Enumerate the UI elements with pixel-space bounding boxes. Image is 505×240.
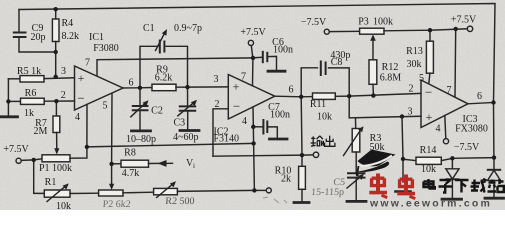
rheostat R1 bbox=[34, 160, 99, 202]
svg-text:P3: P3 bbox=[358, 17, 369, 28]
wire IC3 feedback node bbox=[493, 103, 495, 158]
svg-text:R13: R13 bbox=[406, 46, 423, 57]
svg-text:4: 4 bbox=[242, 116, 247, 127]
svg-text:i: i bbox=[193, 162, 195, 170]
resistor R13 bbox=[426, 30, 433, 83]
wire IC2 pin4 drop bbox=[253, 107, 254, 190]
resistor R5 bbox=[8, 76, 74, 82]
svg-text:+7.5V: +7.5V bbox=[240, 27, 266, 38]
svg-text:R12: R12 bbox=[382, 62, 399, 73]
variable capacitor C1 feedback loop bbox=[140, 29, 188, 88]
svg-text:R6: R6 bbox=[25, 88, 37, 99]
svg-text:2: 2 bbox=[61, 90, 66, 101]
wire IC3 pin7 bbox=[454, 29, 457, 97]
svg-text:7: 7 bbox=[447, 85, 452, 96]
wire +7.5V rail right bbox=[430, 29, 467, 30]
wire left input ground drop bbox=[7, 79, 9, 116]
svg-text:C2: C2 bbox=[151, 106, 163, 117]
svg-text:3: 3 bbox=[408, 107, 413, 118]
op-amp U1 IC1 triangle bbox=[75, 66, 124, 110]
svg-text:4.7k: 4.7k bbox=[122, 168, 140, 179]
wire IC3 pin4 bbox=[445, 116, 446, 139]
svg-text:−: − bbox=[425, 85, 432, 100]
rheostat R3 bbox=[344, 118, 364, 156]
variable capacitor C3 bbox=[178, 87, 199, 130]
resistor R6 bbox=[8, 98, 74, 104]
wire P1 right to IC1 pin4 node bbox=[70, 147, 87, 158]
svg-text:F3080: F3080 bbox=[93, 43, 119, 54]
terminal +7.5V right bbox=[467, 26, 472, 31]
resistor R8 bbox=[112, 160, 173, 167]
capacitor C9 bbox=[14, 10, 56, 53]
capacitor C7 bbox=[253, 120, 287, 139]
diode D3 bbox=[485, 158, 504, 199]
svg-text:−: − bbox=[77, 91, 84, 106]
char 站 bbox=[488, 179, 504, 192]
terminal +7.5V mid bbox=[248, 40, 253, 58]
svg-text:+: + bbox=[78, 71, 85, 85]
svg-text:15-115p: 15-115p bbox=[311, 187, 345, 198]
wire negative supply rail bbox=[87, 143, 254, 147]
char 载 bbox=[471, 179, 487, 193]
wire IC3 output bbox=[468, 103, 494, 104]
terminal -7.5V right bbox=[443, 139, 448, 144]
svg-text:6: 6 bbox=[129, 78, 134, 89]
svg-text:−: − bbox=[233, 99, 240, 114]
svg-text:100n: 100n bbox=[273, 45, 293, 56]
watermark graduation cap bbox=[356, 150, 396, 177]
svg-text:30k: 30k bbox=[407, 59, 422, 70]
svg-text:4~60p: 4~60p bbox=[173, 132, 198, 143]
wire IC1 pin6 output bbox=[123, 87, 140, 89]
watermark bug character 2 bbox=[397, 175, 415, 199]
svg-text:R11: R11 bbox=[310, 99, 326, 110]
op-amp U2 IC2 triangle bbox=[228, 75, 274, 120]
svg-text:5: 5 bbox=[103, 101, 108, 112]
resistor R4 bbox=[52, 9, 59, 77]
svg-text:5: 5 bbox=[419, 73, 424, 84]
svg-text:7: 7 bbox=[85, 58, 90, 69]
svg-text:10k: 10k bbox=[56, 201, 71, 210]
wire IC2 pin6 output bbox=[275, 95, 301, 98]
wire IC3 plus-in rail bbox=[349, 96, 421, 118]
svg-text:20p: 20p bbox=[31, 32, 46, 43]
svg-text:−7.5V: −7.5V bbox=[301, 17, 327, 28]
wire IC2 out node down to output bbox=[300, 97, 303, 155]
gray faded labels bbox=[102, 177, 345, 210]
svg-text:2: 2 bbox=[215, 99, 220, 110]
char 下 bbox=[455, 180, 469, 193]
svg-text:R2 500: R2 500 bbox=[165, 196, 195, 207]
svg-text:2: 2 bbox=[409, 84, 414, 95]
wire IC1 pin5 bbox=[111, 93, 113, 164]
svg-text:P1 100k: P1 100k bbox=[39, 163, 72, 174]
watermark text dian zi xia zai zhan bbox=[424, 179, 504, 193]
op-amp U3 IC3 triangle bbox=[421, 80, 468, 128]
wire IC2 pin2 loop bbox=[213, 109, 228, 156]
variable capacitor C5 bbox=[347, 152, 366, 201]
wire R9 node to IC2 pin3 bbox=[188, 86, 229, 88]
watermark bug character 1 bbox=[369, 174, 387, 198]
terminal -7.5V top bbox=[324, 29, 329, 34]
svg-text:C3: C3 bbox=[173, 118, 185, 129]
text 输出 output label bbox=[311, 136, 335, 147]
rheostat R2 bbox=[154, 181, 255, 197]
wire IC2 pin7 supply bbox=[252, 58, 254, 86]
svg-text:6: 6 bbox=[477, 91, 482, 102]
resistor R14 bbox=[403, 157, 452, 164]
wire output rail bbox=[213, 155, 313, 156]
svg-text:P2 6k2: P2 6k2 bbox=[102, 199, 131, 210]
wire IC1 pin7 supply bbox=[97, 58, 253, 76]
svg-text:−7.5V: −7.5V bbox=[454, 142, 480, 153]
terminal negative mid bbox=[254, 188, 271, 193]
resistor R11 bbox=[301, 93, 349, 99]
svg-text:1k: 1k bbox=[24, 108, 34, 119]
svg-text:7: 7 bbox=[241, 72, 246, 83]
svg-text:3: 3 bbox=[61, 66, 66, 77]
svg-text:+7.5V: +7.5V bbox=[3, 144, 29, 155]
wire IC1 pin4 bbox=[86, 104, 88, 146]
svg-text:R8: R8 bbox=[124, 148, 136, 159]
svg-text:10k: 10k bbox=[421, 164, 436, 175]
wire IC3 plus node drop to R14 bbox=[402, 117, 403, 160]
char 电 bbox=[424, 179, 435, 189]
svg-text:6.8M: 6.8M bbox=[380, 73, 402, 84]
resistor R9 bbox=[140, 84, 188, 91]
svg-text:F3140: F3140 bbox=[214, 134, 240, 145]
potentiometer P3 bbox=[329, 28, 430, 34]
svg-text:IC1: IC1 bbox=[89, 32, 104, 43]
svg-text:8.2k: 8.2k bbox=[62, 31, 80, 42]
svg-text:6: 6 bbox=[289, 85, 294, 96]
wire diode rail bbox=[452, 157, 494, 160]
svg-text:2k: 2k bbox=[281, 174, 291, 185]
capacitor C6 bbox=[253, 52, 285, 71]
svg-text:FX3080: FX3080 bbox=[455, 124, 488, 135]
svg-text:2M: 2M bbox=[34, 126, 48, 137]
svg-text:10k: 10k bbox=[317, 112, 332, 123]
variable capacitor C2 bbox=[131, 88, 151, 131]
svg-text:6.2k: 6.2k bbox=[155, 73, 173, 84]
svg-text:100n: 100n bbox=[270, 110, 290, 121]
text Vi arrow faint marks near terminal bbox=[263, 197, 287, 203]
svg-text:R5 1k: R5 1k bbox=[17, 66, 41, 77]
svg-text:+: + bbox=[426, 110, 433, 124]
svg-text:3: 3 bbox=[214, 74, 219, 85]
potentiometer P1 bbox=[16, 155, 70, 164]
resistor R12 bbox=[369, 34, 377, 95]
resistor R10 bbox=[294, 155, 309, 202]
capacitor C8 loop bbox=[301, 62, 349, 97]
svg-text:R1: R1 bbox=[45, 177, 57, 188]
svg-text:R4: R4 bbox=[62, 18, 74, 29]
terminal output bbox=[313, 152, 318, 157]
svg-text:C1: C1 bbox=[143, 23, 155, 34]
svg-text:+7.5V: +7.5V bbox=[451, 15, 477, 26]
wire R14 left drop bbox=[402, 159, 404, 182]
ground bbox=[1, 115, 18, 118]
diode D2 bbox=[442, 158, 462, 199]
potentiometer P2 bbox=[99, 164, 154, 196]
svg-text:C8: C8 bbox=[331, 57, 343, 68]
svg-text:www.eeworm.com: www.eeworm.com bbox=[369, 198, 492, 210]
svg-text:+: + bbox=[233, 80, 240, 94]
char 子 bbox=[439, 180, 453, 193]
svg-text:100k: 100k bbox=[373, 17, 393, 28]
svg-text:R14: R14 bbox=[420, 145, 437, 156]
svg-text:0.9~7p: 0.9~7p bbox=[174, 23, 202, 34]
svg-text:4: 4 bbox=[75, 112, 80, 123]
wire top feedback rail bbox=[19, 4, 495, 103]
resistor R7 bbox=[53, 101, 60, 154]
svg-text:4: 4 bbox=[436, 124, 441, 135]
svg-text:10–80p: 10–80p bbox=[126, 134, 156, 145]
wire minus-in rail to IC3 bbox=[349, 93, 421, 96]
